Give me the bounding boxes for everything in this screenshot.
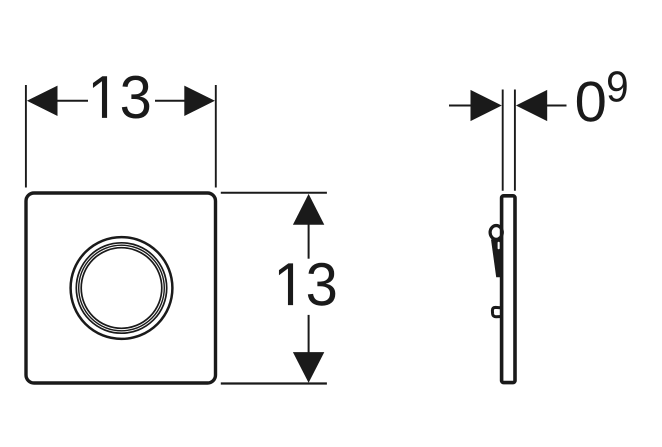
height arrow up — [293, 194, 324, 225]
width dim line left segment — [57, 100, 88, 102]
height arrow down — [293, 352, 324, 383]
side view spring hook loop — [490, 226, 502, 240]
thickness label superscript 9 — [608, 71, 627, 102]
thickness extension line right — [514, 90, 516, 191]
width extension line left — [25, 85, 27, 188]
side view lower clip — [492, 307, 501, 316]
height dim line upper segment — [308, 225, 310, 259]
thickness arrow right (points left) — [516, 90, 547, 121]
button outer ring — [71, 237, 173, 339]
thickness extension line left — [502, 90, 504, 191]
width arrow left — [27, 86, 58, 116]
height extension line bottom — [221, 382, 327, 384]
button ring 3 — [79, 245, 165, 331]
height label 13 — [279, 263, 335, 306]
button inner ring — [81, 248, 162, 329]
thickness dim tail right — [547, 105, 567, 107]
width dim line right segment — [155, 100, 185, 102]
side view spring leaf notch — [498, 242, 500, 250]
thickness arrow left (points right) — [471, 90, 502, 121]
side view spring leaf wedge — [491, 240, 502, 278]
front view plate outline — [26, 193, 216, 383]
button ring 2 — [76, 243, 166, 333]
height extension line top — [221, 192, 327, 194]
width label 13 — [93, 76, 149, 119]
width extension line right — [215, 85, 217, 188]
thickness dim tail left — [449, 105, 471, 107]
height dim line lower segment — [308, 315, 310, 353]
width arrow right — [184, 86, 215, 116]
side view plate outline — [502, 196, 515, 383]
thickness label 0 — [577, 81, 605, 121]
